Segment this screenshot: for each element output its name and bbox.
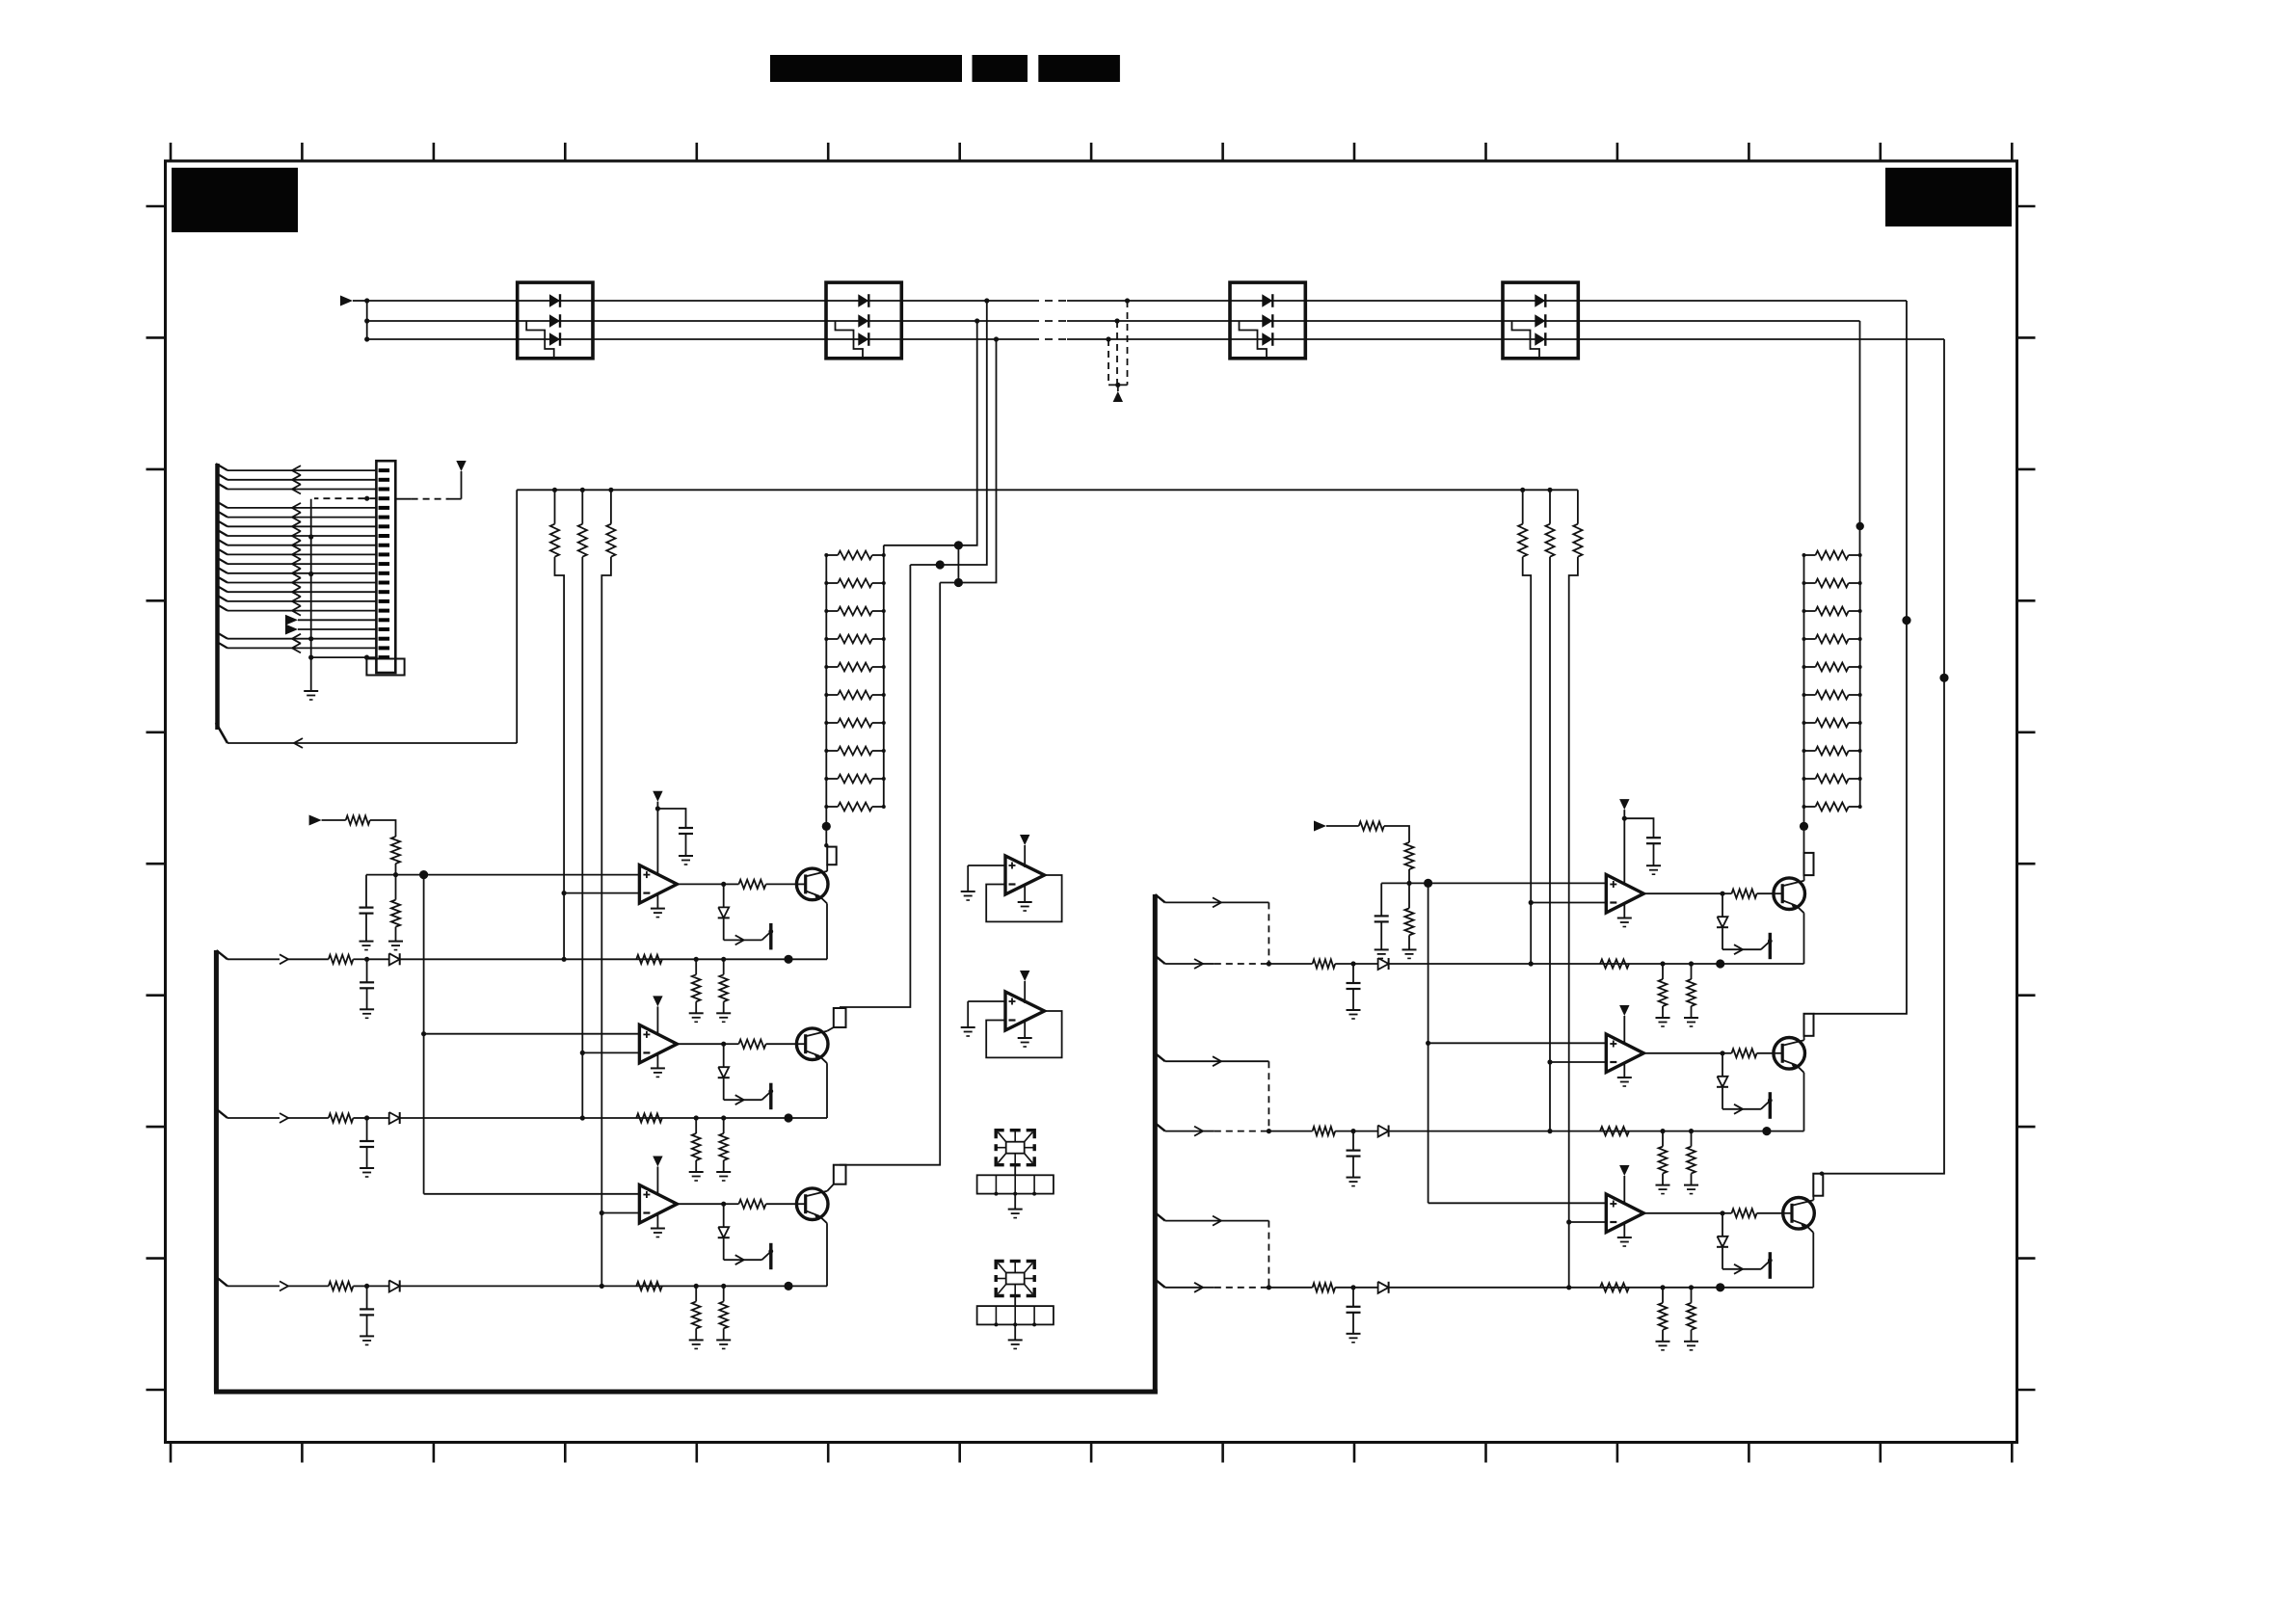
resistor RL8 ladder [1816, 747, 1849, 756]
wire connector row 2 [216, 473, 227, 480]
contact switch SL2 [724, 1099, 762, 1101]
wire bus line3 to ch3-right collector [1822, 678, 1944, 1173]
resistor RL7 ladder [1816, 719, 1849, 728]
resistor Rbias3 R [1404, 908, 1413, 935]
diode pack U4 [1503, 282, 1578, 359]
resistor LL1 ladder [838, 551, 872, 560]
resistor R13 divider left [608, 488, 613, 492]
wire emitter QL2 [826, 1063, 828, 1118]
feed junction L3 [784, 1282, 792, 1290]
wire bus line3 right drop [1943, 339, 1945, 678]
wire output UR2 [1643, 1052, 1722, 1054]
wire connector row 12 [216, 567, 227, 573]
resistor R21 divider right [1520, 488, 1525, 492]
wire feed line R2 [1547, 1129, 1552, 1133]
ladder LL right rail [883, 545, 885, 807]
capacitor Cbias R [1380, 883, 1382, 916]
cable bundle bar J1 left [215, 464, 220, 730]
wire output UR1 [1643, 892, 1722, 894]
wire connector row 5 [216, 501, 227, 508]
supply arrow op-amp UL1 [653, 791, 662, 802]
pad block 4-cell [977, 1306, 1054, 1324]
wire minus input UR3 [1569, 1221, 1607, 1223]
resistor pair RL2p [694, 1115, 699, 1120]
wire resonator to pad [1014, 1165, 1016, 1176]
capacitor CL1 supply [657, 809, 685, 828]
bus drop junction line2 [974, 318, 979, 323]
diode DR3 clamp [1722, 1213, 1723, 1237]
resistor LL7 ladder [838, 719, 872, 728]
diode Din R3 [1353, 1287, 1378, 1289]
transistor QR3 [1783, 1198, 1815, 1230]
diode Din R2 [1353, 1131, 1378, 1132]
board outline bottom [214, 1390, 1158, 1395]
feed junction L1 [784, 955, 792, 964]
connector row 17 input arrow [285, 615, 298, 625]
resistor Rbias1 L [346, 815, 370, 824]
ground buffer plus [968, 1000, 1005, 1002]
ground resonator [1014, 1324, 1016, 1340]
resistor RL4 ladder [1816, 635, 1849, 644]
wire connector row 1 [216, 464, 227, 470]
wire connector row 14 [216, 585, 227, 592]
op-amp UL2 [639, 1024, 677, 1063]
ferrite bead FBL3 [834, 1165, 846, 1184]
resonator body [1006, 1142, 1025, 1154]
ladder-right bottom junction [1800, 822, 1808, 831]
diode Din L2 [367, 1117, 389, 1119]
wire column2 right [1549, 588, 1551, 1131]
connector row4 wire to +5V arrow [395, 498, 411, 500]
resistor Rin L1 [329, 955, 354, 964]
wire connector row 15 [216, 595, 227, 601]
supply arrow op-amp UL2 [653, 996, 662, 1006]
contact switch SR2 [1722, 1108, 1761, 1110]
resistor base RR3b [1722, 1212, 1732, 1214]
stub exit right ch2 [1155, 1053, 1164, 1061]
stub exit right ch3 [1155, 1212, 1164, 1220]
wire plus input L2 [424, 1033, 640, 1035]
wire connector row 9 [216, 539, 227, 545]
capacitor Cbias L [365, 875, 367, 908]
wire tie segment [957, 545, 959, 583]
capacitor Cin L1 [366, 959, 368, 982]
wire output UL2 [677, 1043, 723, 1045]
wire connector row 8 [216, 529, 227, 536]
supply arrow buffer [1020, 971, 1029, 981]
resonator body [1006, 1273, 1025, 1285]
ladder RL left rail [1803, 555, 1805, 826]
supply arrow op-amp UR3 [1619, 1165, 1629, 1176]
resistor RL1 ladder [1816, 551, 1849, 560]
wire connector row 13 [216, 576, 227, 583]
op-amp UR1 [1606, 875, 1643, 914]
resistor pair RR1p [1660, 961, 1665, 966]
contact switch SL3 [724, 1259, 762, 1261]
buffer op-amp center [1005, 992, 1045, 1030]
wire emitter QR3 [1812, 1233, 1814, 1288]
wire connector row 20 [216, 641, 227, 648]
ground op-amp UL2 [656, 1053, 658, 1068]
ground buffer plus [968, 865, 1005, 866]
wire output UR3 [1643, 1212, 1722, 1214]
transistor QL3 [796, 1188, 828, 1220]
wire plus input R1 [1381, 882, 1606, 884]
wire emitter QL1 [826, 903, 828, 959]
bus dashed break [1031, 300, 1067, 302]
wire connector row 16 [216, 604, 227, 611]
resistor RR3f [1600, 1283, 1629, 1291]
feed junction R3 [1716, 1283, 1724, 1291]
buffer op-amp center [1005, 856, 1045, 894]
resistor RL2 ladder [1816, 579, 1849, 588]
bus drop junction line1 [984, 298, 989, 303]
dashed drop right ch1 [1268, 902, 1269, 964]
transistor QL1 [796, 868, 828, 900]
resistor base RL3b [724, 1203, 739, 1205]
ferrite bead FBL1 [827, 847, 837, 865]
resistor LL6 ladder [838, 691, 872, 700]
stub exit right ch1 [1155, 894, 1164, 902]
wire bus line1 right drop [1906, 301, 1908, 621]
feed exit left ch2 [216, 1109, 227, 1118]
wire column1 left [563, 588, 565, 959]
wire column to ch3-left collector [840, 583, 940, 1165]
diode Din L1 [367, 958, 389, 960]
op-amp UR2 [1606, 1034, 1643, 1073]
ground op-amp UL1 [656, 894, 658, 909]
ferrite bead FBR2 [1804, 1014, 1814, 1036]
pad block 4-cell [977, 1175, 1054, 1193]
resistor RL9 ladder [1816, 775, 1849, 784]
resistor Rin R2 [1313, 1127, 1336, 1135]
resistor base RL1b [724, 883, 739, 885]
resistor RL10 ladder [1816, 803, 1849, 811]
resistor Rbias2 L [391, 837, 400, 864]
bias input arrow L [309, 815, 322, 826]
capacitor Cin R1 [1352, 964, 1354, 983]
resistor RL3f [636, 1282, 662, 1290]
supply arrow buffer [1020, 835, 1029, 845]
connector row 18 input arrow [285, 625, 298, 635]
resistor base RR2b [1722, 1052, 1732, 1054]
wire bus line 1 [367, 300, 1031, 302]
feed junction R2 [1762, 1127, 1771, 1135]
shield box dashed [996, 1262, 1004, 1270]
diode DR2 clamp [1722, 1053, 1723, 1077]
feed exit left ch3 [216, 1277, 227, 1286]
connector J1 body [376, 461, 395, 673]
wire emitter QL3 [826, 1223, 828, 1286]
resistor LL8 ladder [838, 747, 872, 756]
wire connector row 6 [216, 511, 227, 518]
wire minus input UL1 [564, 892, 639, 894]
resistor pair RL3p [694, 1284, 699, 1289]
redacted title bar 3 [1038, 55, 1120, 82]
resistor RL1f [636, 955, 662, 964]
ground op-amp UR2 [1623, 1063, 1625, 1078]
capacitor Cin R2 [1352, 1131, 1354, 1151]
resistor LL2 ladder [838, 579, 872, 588]
ground op-amp UL3 [656, 1214, 658, 1229]
resistor RR1f [1600, 959, 1629, 968]
wire emitter QR1 [1803, 913, 1805, 964]
bias input arrow R [1314, 821, 1326, 832]
resistor Rbias3 L [391, 900, 400, 927]
ferrite bead FBR1 [1804, 853, 1814, 875]
wire emitter QR2 [1803, 1073, 1805, 1131]
wire feed line L2 [580, 1115, 585, 1120]
resistor Rbias1 R [1359, 821, 1384, 830]
wire bus line 3 [367, 338, 1031, 340]
feedback loop buffer [986, 875, 1061, 921]
resistor Rin R3 [1313, 1283, 1336, 1291]
board outline thick left bar [214, 950, 219, 1392]
feedback loop buffer [986, 1011, 1061, 1057]
ground buffer mid [1024, 1020, 1026, 1038]
wire column to ch2-left collector [840, 565, 910, 1007]
op-amp UL1 [639, 865, 677, 904]
wire feed line L1 [562, 957, 567, 962]
contact switch SR3 [1722, 1268, 1761, 1270]
contact switch SL1 [724, 939, 762, 941]
bus feed node [353, 300, 367, 302]
capacitor Cin L3 [366, 1286, 368, 1309]
feed junction R1 [1716, 959, 1724, 968]
wire output UL1 [677, 883, 723, 885]
connector J1 pins [379, 468, 390, 472]
feed exit right ch2 [1155, 1123, 1164, 1131]
diode Din R1 [1353, 963, 1378, 965]
connector J1 tab [366, 659, 404, 676]
wire minus input UL2 [582, 1051, 639, 1053]
wire bus line2 right drop [1859, 321, 1861, 555]
black label box top-left [172, 168, 298, 232]
wire connector row 4 dashed [314, 497, 376, 499]
supply arrow op-amp UL3 [653, 1157, 662, 1167]
wire minus input UR2 [1550, 1061, 1606, 1063]
resistor LL3 ladder [838, 607, 872, 616]
resistor Rin L3 [329, 1282, 354, 1290]
feed exit left ch1 [216, 950, 227, 959]
bus input arrow [340, 296, 353, 306]
capacitor Cin R3 [1352, 1288, 1354, 1307]
resistor RR2f [1600, 1127, 1629, 1135]
resistor R12 divider left [580, 488, 585, 492]
capacitor Cin L2 [366, 1118, 368, 1141]
wire column2 left [581, 588, 583, 1118]
wire bus v-line2 to ladder [884, 321, 977, 545]
wire connector row 3 [216, 483, 227, 490]
wire minus input UR1 [1531, 902, 1606, 904]
wire feed line R1 [1529, 961, 1534, 966]
wire bus line 2 [367, 320, 1031, 322]
diode pack U1 [518, 282, 593, 359]
board outline right bar [1153, 894, 1158, 1395]
op-amp UL3 [639, 1185, 677, 1224]
frame ruler ticks top/bottom [170, 143, 173, 161]
redacted title bar 1 [770, 55, 962, 82]
resistor R23 divider right [1577, 490, 1579, 523]
wire column1 right [1530, 588, 1532, 964]
wire connector row 19 [216, 632, 227, 639]
ladder LL left rail [825, 555, 827, 826]
wire plus input L1 [366, 874, 639, 876]
capacitor CR1 supply [1624, 818, 1653, 838]
wire connector row 11 [216, 557, 227, 564]
resistor RL5 ladder [1816, 663, 1849, 672]
ground op-amp UR1 [1623, 904, 1625, 918]
ladder-left bottom junction [822, 822, 831, 831]
ferrite bead FBR3 [1813, 1174, 1823, 1196]
wire plus input R2 [1428, 1042, 1607, 1044]
diode DL3 clamp [723, 1204, 725, 1227]
wire connector row 10 [216, 547, 227, 554]
wire feed line L3 [600, 1284, 604, 1289]
diode Din L3 [367, 1285, 389, 1287]
resistor Rin R1 [1313, 959, 1336, 968]
bus drop junction line3 [994, 336, 999, 341]
diode pack U2 [826, 282, 901, 359]
resistor RL6 ladder [1816, 691, 1849, 700]
frame ruler ticks left/right [147, 205, 166, 208]
transistor QL2 [796, 1028, 828, 1060]
resistor R22 divider right [1547, 488, 1552, 492]
off-page arrow up [1113, 391, 1123, 402]
dashed drop right ch3 [1268, 1221, 1269, 1288]
diode pack U3 [1230, 282, 1305, 359]
resistor base RR1b [1722, 892, 1732, 894]
ground op-amp UR3 [1623, 1223, 1625, 1237]
resistor pair RR2p [1660, 1129, 1665, 1133]
wire connector row21 to ground rail [364, 655, 369, 660]
wire connector row 21 ground link [311, 656, 377, 658]
wire column3 left [601, 588, 602, 1286]
feed exit right ch3 [1155, 1279, 1164, 1287]
feed junction L2 [784, 1113, 792, 1122]
cable bar bottom wire [216, 723, 227, 743]
resistor pair RR3p [1660, 1285, 1665, 1290]
resistor RL2f [636, 1113, 662, 1122]
diode DR1 clamp [1722, 893, 1723, 917]
resistor pair RL1p [694, 957, 699, 962]
ground rail at connector [310, 499, 312, 690]
wire output UL3 [677, 1203, 723, 1205]
transistor QR1 [1774, 878, 1805, 910]
op-amp UR3 [1606, 1194, 1643, 1233]
shield box dashed [996, 1131, 1004, 1139]
frame border [166, 161, 2017, 1443]
diode DL1 clamp [723, 884, 725, 907]
resistor Rin L2 [329, 1113, 354, 1122]
wire feed line R3 [1566, 1285, 1571, 1290]
wire bus line1 to ch2-right collector [1814, 621, 1908, 1014]
ladder right rail feed dot [1856, 522, 1864, 530]
resistor Rbias2 R [1404, 842, 1413, 869]
black label box top-right [1885, 168, 2012, 226]
off-page connector dashed drop [1125, 298, 1130, 303]
resistor LL9 ladder [838, 775, 872, 784]
resistor LL4 ladder [838, 635, 872, 644]
contact switch SR1 [1722, 948, 1761, 950]
wire bus v-line1 step [910, 301, 986, 565]
supply arrow op-amp UR2 [1619, 1005, 1629, 1016]
wire bus v-line3 step [940, 339, 996, 583]
wire plus chain L [423, 875, 425, 1194]
resistor R11 divider left [552, 488, 557, 492]
resistor RL3 ladder [1816, 607, 1849, 616]
wire column3 right [1568, 588, 1570, 1288]
supply arrow op-amp UR1 [1619, 799, 1629, 810]
ground resonator [1014, 1194, 1016, 1210]
wire plus input R3 [1428, 1202, 1607, 1204]
ground buffer mid [1024, 884, 1026, 902]
redacted title bar 2 [973, 55, 1028, 82]
resistor LL10 ladder [838, 803, 872, 811]
resistor base RL2b [724, 1043, 739, 1045]
ladder RL right rail [1859, 555, 1861, 807]
supply arrow down at connector [456, 461, 466, 471]
wire plus chain R [1428, 883, 1429, 1203]
wire riser x536 [516, 490, 518, 743]
dashed drop right ch2 [1268, 1061, 1269, 1131]
transistor QR2 [1774, 1038, 1805, 1070]
ferrite bead FBL2 [834, 1008, 846, 1027]
wire minus input UL3 [601, 1212, 639, 1214]
feed exit right ch1 [1155, 956, 1164, 964]
ground symbol connector rail [304, 690, 318, 692]
resistor LL5 ladder [838, 663, 872, 672]
wire resonator to pad [1014, 1296, 1016, 1307]
wire connector row 7 [216, 519, 227, 526]
wire distribution rail y508 [517, 489, 1578, 491]
wire plus input L3 [424, 1193, 640, 1195]
diode DL2 clamp [723, 1044, 725, 1067]
